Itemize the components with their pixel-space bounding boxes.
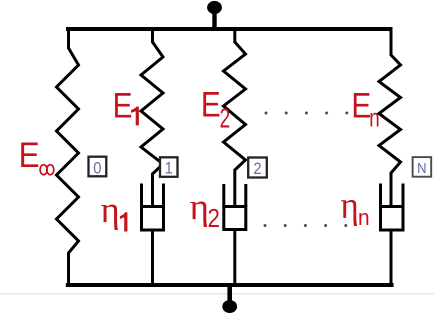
label E_infinity <box>19 136 54 175</box>
wire branch3 lower lead <box>233 229 236 285</box>
svg-text:2: 2 <box>220 103 231 135</box>
dashpot etan cylinder walls <box>381 184 404 208</box>
label etan <box>341 184 370 231</box>
svg-text:E: E <box>19 136 40 175</box>
dashpot eta1 piston rod <box>151 173 154 206</box>
bottom bus wire <box>66 283 394 287</box>
label E2 <box>201 85 230 134</box>
top terminal node <box>207 1 222 14</box>
svg-text:0: 0 <box>93 159 101 177</box>
top terminal stem <box>212 10 216 28</box>
svg-text:1: 1 <box>165 160 173 178</box>
node box 2 <box>248 158 267 179</box>
svg-text:E: E <box>113 86 133 125</box>
dashpot eta2 piston rod <box>233 169 236 206</box>
wire branch2 upper lead <box>151 29 154 43</box>
dashpot eta1 cylinder walls <box>142 184 164 208</box>
label eta1 <box>101 189 128 232</box>
svg-text:n: n <box>358 206 370 231</box>
dotted continuation row upper <box>265 112 349 115</box>
spring E_infinity <box>57 48 79 253</box>
spring En <box>379 55 401 173</box>
wire branch4 upper lead <box>390 29 393 56</box>
bottom terminal stem <box>227 287 232 303</box>
dashpot etan piston box <box>381 207 404 231</box>
label eta2 <box>190 187 220 233</box>
node box N <box>413 157 432 177</box>
wire branch2 lower lead <box>151 230 154 285</box>
node box 0 <box>89 157 107 178</box>
svg-text:E: E <box>201 85 221 124</box>
svg-text:η: η <box>190 187 209 228</box>
node box 1 <box>160 157 178 177</box>
wire branch4 lower lead <box>390 230 393 285</box>
dashpot eta2 cylinder walls <box>224 184 246 207</box>
separator line <box>0 293 434 295</box>
dotted continuation row lower <box>264 224 348 227</box>
dashpot eta1 piston box <box>142 207 164 231</box>
svg-text:E: E <box>351 86 371 125</box>
spring E2 <box>224 42 246 170</box>
wire branch3 upper lead <box>233 29 236 43</box>
svg-text:N: N <box>417 159 426 176</box>
svg-text:n: n <box>369 102 379 132</box>
bottom terminal node <box>222 300 237 313</box>
dashpot etan piston rod <box>390 172 393 206</box>
label E1 <box>113 86 139 125</box>
svg-text:η: η <box>341 184 359 227</box>
svg-text:2: 2 <box>208 204 220 233</box>
svg-text:2: 2 <box>253 160 261 178</box>
top bus wire <box>66 27 393 31</box>
dashpot eta2 piston box <box>224 207 246 230</box>
wire branch1 upper lead <box>67 29 70 49</box>
wire branch1 lower lead <box>67 252 70 285</box>
label En <box>351 86 379 132</box>
spring E1 <box>141 42 163 174</box>
svg-text:η: η <box>101 189 120 230</box>
